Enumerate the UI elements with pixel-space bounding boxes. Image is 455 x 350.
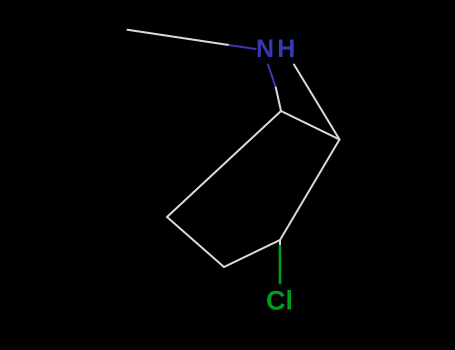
wire: ring bond B2 to K — [224, 240, 280, 267]
wire: ring bond J2 to B2 — [167, 217, 224, 267]
wire: bond CH3 to N (blue part near N) — [230, 45, 256, 49]
svg-text:Cl: Cl — [266, 286, 293, 316]
wire: ring bond C1 to R — [281, 111, 340, 140]
wire: bond N to C1 (white part) — [276, 88, 281, 112]
wire: ring bond R to K — [280, 140, 340, 241]
wire: bond K to Cl (green part) — [279, 246, 282, 283]
wire: bond N to C1 (blue part near N) — [268, 65, 276, 88]
wire: bond CH3 to N (white part) — [128, 30, 230, 45]
wire: bond from below H to R upper right — [294, 65, 340, 140]
wire: ring bond C1 to J2 long diagonal — [167, 111, 281, 217]
wire: bond K to Cl (white part) — [279, 240, 281, 246]
svg-text:NH: NH — [256, 35, 299, 63]
